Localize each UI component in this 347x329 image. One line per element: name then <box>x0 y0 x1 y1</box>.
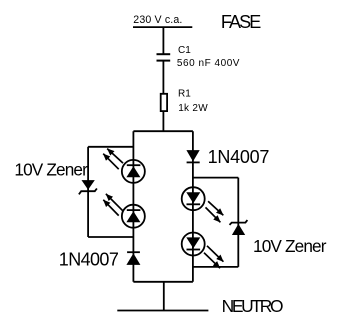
LED D3 (left top, pointing up) <box>103 149 145 183</box>
capacitor C1 <box>157 54 171 60</box>
wire right loop vertical <box>237 178 239 267</box>
zener Z2 10V (right loop, pointing up) <box>230 220 248 235</box>
wire right loop bottom <box>193 266 238 268</box>
diode D1 1N4007 (top right, pointing down) <box>186 150 199 162</box>
svg-text:560 nF 400V: 560 nF 400V <box>177 58 240 69</box>
resistor R1 <box>161 94 167 111</box>
svg-text:1N4007: 1N4007 <box>59 249 119 269</box>
wire bridge bottom to NEUTRO <box>163 282 165 311</box>
svg-text:FASE: FASE <box>221 12 261 32</box>
LED D6 emission arrows <box>207 246 223 262</box>
diode D2 1N4007 (bottom left, pointing up) <box>126 252 140 265</box>
zener Z1 10V (left loop, pointing down) <box>79 180 97 194</box>
wire right loop top <box>193 177 238 179</box>
LED D6 (right bottom, pointing down) <box>182 233 224 269</box>
LED D5 emission arrows <box>208 201 223 215</box>
svg-text:230 V c.a.: 230 V c.a. <box>133 14 182 26</box>
svg-text:R1: R1 <box>178 88 191 99</box>
svg-text:NEUTRO: NEUTRO <box>222 296 283 316</box>
svg-text:10V Zener: 10V Zener <box>14 159 88 179</box>
svg-text:1k 2W: 1k 2W <box>178 103 208 114</box>
wire bridge top horizontal <box>133 130 193 132</box>
LED D4 emission arrows <box>106 194 123 211</box>
svg-text:1N4007: 1N4007 <box>208 147 270 167</box>
wire right rail <box>192 131 194 282</box>
wire top terminal FASE <box>133 26 192 28</box>
LED D3 emission arrows <box>107 149 123 164</box>
LED D4 (left bottom, pointing up) <box>103 194 145 228</box>
LED D5 (right top, pointing down) <box>182 187 224 222</box>
wire left loop top <box>88 146 133 148</box>
wire left loop vertical <box>87 147 89 237</box>
svg-text:10V Zener: 10V Zener <box>253 236 327 256</box>
wire C1 to R1 <box>162 62 164 94</box>
wire R1 to bridge top <box>162 112 164 131</box>
wire left rail <box>132 131 134 282</box>
wire from FASE line to C1 <box>162 27 164 53</box>
wire left loop bottom <box>88 236 133 238</box>
wire NEUTRO terminal <box>117 310 208 312</box>
svg-text:C1: C1 <box>178 45 191 56</box>
wire bridge bottom horizontal <box>133 281 193 283</box>
